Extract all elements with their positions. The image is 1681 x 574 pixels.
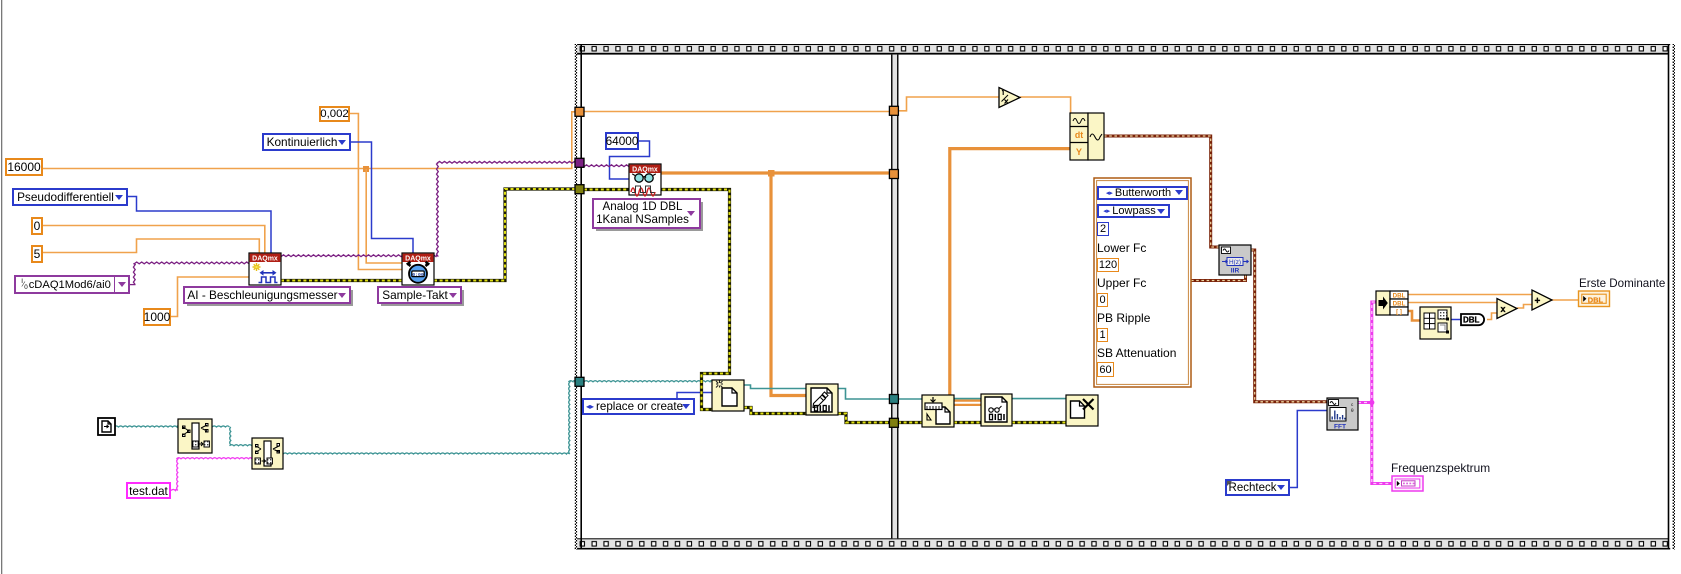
Open/Create/Replace File node — [712, 380, 744, 411]
Strip Path node — [178, 419, 212, 453]
wire: reciprocal output to build waveform dt — [1020, 97, 1071, 113]
constant 64000 — [605, 132, 639, 150]
Read Binary File node — [981, 394, 1012, 426]
wire: unbundle magnitude array to array max-min — [1408, 311, 1420, 321]
error wire: timing to structure tunnel — [434, 189, 576, 281]
constant 5 — [31, 245, 43, 263]
reciprocal 1/x node — [999, 88, 1020, 108]
constant SB Attenuation 60 — [1097, 362, 1114, 377]
tunnel: sample rate into frame 1 — [575, 107, 584, 116]
svg-text:θ: θ — [1351, 408, 1354, 413]
label Upper Fc — [1097, 276, 1146, 290]
wire: build path output to structure tunnel — [283, 381, 575, 454]
wire: DBL conversion to multiply input — [1487, 313, 1497, 320]
cDAQ1Mod6/ai0 IO constant — [14, 275, 130, 294]
Frequenzspektrum indicator — [1392, 476, 1423, 491]
svg-text:DBL: DBL — [1588, 296, 1604, 305]
label Lower Fc — [1097, 241, 1146, 255]
constant Pseudodifferentiell dropdown — [12, 188, 128, 206]
wire: strip path to build path — [212, 426, 252, 446]
error wire: open file to write file — [744, 408, 806, 414]
Close File node — [1066, 395, 1098, 426]
wire: task tunnel to DAQmx read — [584, 165, 629, 167]
wire: IIR filter output to FFT — [1251, 250, 1327, 402]
wire: sample rate branch to DAQmx timing rate input — [366, 169, 402, 263]
wire: replace-or-create mode to open file — [677, 393, 712, 400]
label Erste Dominante — [1579, 277, 1665, 290]
svg-text:DBL: DBL — [1393, 293, 1406, 300]
Current VI Path node — [98, 418, 115, 435]
wire: FFT spectrum output — [1358, 401, 1373, 404]
wire: add output to Erste Dominante indicator — [1552, 299, 1578, 301]
Sample-Takt dropdown — [377, 286, 462, 304]
tunnel: file path into frame 1 — [575, 377, 584, 386]
flat sequence left border checker — [575, 44, 582, 550]
error wire: get size to read file — [954, 421, 981, 424]
error wire: tunnel to get size — [898, 421, 922, 424]
replace or create dropdown — [582, 398, 695, 416]
label Frequenzspektrum — [1391, 461, 1490, 475]
svg-text:[ ]: [ ] — [1396, 309, 1402, 315]
wire: spectrum to Frequenzspektrum indicator — [1372, 401, 1392, 484]
label SB Attenuation — [1097, 346, 1176, 360]
wire: file refnum size to read — [954, 398, 981, 400]
svg-text:+: + — [1535, 296, 1541, 307]
Butterworth dropdown — [1097, 186, 1188, 200]
svg-text:H(z): H(z) — [1229, 259, 1241, 266]
IIR filter node — [1219, 245, 1251, 275]
Analog 1D DBL polymorphic selector — [592, 198, 701, 229]
constant 0 — [31, 217, 43, 235]
Kontinuierlich dropdown — [262, 133, 351, 151]
constant Upper Fc 0 — [1097, 293, 1108, 307]
wire: waveform build to IIR filter — [1104, 136, 1219, 247]
wire: max index to DBL conversion — [1451, 319, 1461, 321]
test.dat string constant — [126, 482, 171, 499]
junction on data array wire — [768, 170, 775, 177]
wire: task create channel to timing and tunnel — [281, 161, 576, 256]
wire: unbundle DBL to multiply — [1408, 302, 1497, 304]
svg-text:DBL: DBL — [1463, 316, 1480, 325]
Build Waveform node — [1070, 113, 1104, 160]
flat sequence right border checker — [1668, 44, 1675, 550]
FFT power spectrum node — [1327, 398, 1358, 430]
wire: filter spec cluster to IIR filter — [1191, 275, 1246, 281]
svg-text:DAQmx: DAQmx — [252, 256, 278, 263]
AI - Beschleunigungsmesser dropdown — [183, 286, 351, 304]
wire: Pseudodifferentiell to create channel — [128, 197, 271, 254]
DAQmx Create Channel node — [249, 253, 281, 285]
Array Max and Min node — [1420, 307, 1451, 339]
wire: 64000 to DAQmx read samples input — [610, 141, 650, 179]
svg-text:Y: Y — [1076, 147, 1082, 157]
wire: 16000 sample rate to tunnel — [43, 112, 576, 169]
wire: Rechteck window to FFT — [1289, 411, 1327, 488]
wire: path tunnel to open file — [584, 381, 712, 382]
wire: file size to read count lower — [954, 404, 981, 406]
svg-text:IIR: IIR — [1231, 268, 1240, 275]
junction on sample-rate wire — [363, 166, 369, 172]
filter specification cluster frame — [1094, 178, 1191, 387]
wire: constant 5 to create channel max input — [43, 239, 259, 253]
wire: data array branch to write binary file — [771, 173, 806, 396]
wire: sample rate to reciprocal — [898, 97, 999, 111]
wire: Kontinuierlich to timing mode — [351, 142, 413, 253]
wire: DAQmx read data array to tunnel — [661, 171, 889, 174]
DAQmx Read node — [629, 164, 661, 196]
Build Path node — [252, 438, 283, 469]
wire: spectrum to unbundle — [1372, 302, 1376, 404]
svg-text:dt: dt — [1075, 130, 1083, 140]
wire: constant 0 to create channel min input — [43, 226, 265, 254]
wire: multiply output to add input — [1517, 305, 1532, 309]
tunnel: sample rate frame divider — [889, 106, 898, 115]
constant 120 — [1097, 258, 1119, 272]
To DBL conversion node — [1461, 314, 1484, 325]
junction on spectrum wire — [1369, 400, 1374, 405]
constant 16000 — [5, 158, 43, 176]
svg-text:DAQmx: DAQmx — [632, 167, 658, 174]
wire: file data array up to build waveform Y — [950, 149, 1070, 402]
wire: test.dat to build path — [171, 458, 252, 491]
tunnel: error frame divider — [889, 418, 898, 427]
unbundle spectrum cluster node — [1376, 291, 1408, 315]
wire: physical channel to create channel — [130, 262, 249, 285]
error wire: create channel to timing — [281, 279, 402, 282]
DAQmx Timing node — [402, 253, 434, 285]
flat sequence bottom film-strip border — [575, 538, 1670, 549]
Write Binary File node — [806, 384, 838, 415]
error wire: read file to close file — [1012, 421, 1066, 424]
Rechteck window dropdown — [1225, 479, 1290, 496]
Lowpass dropdown — [1097, 204, 1170, 218]
wire: VI path to strip path — [114, 426, 178, 427]
flat sequence frame divider — [891, 55, 899, 539]
Erste Dominante DBL indicator — [1579, 291, 1610, 307]
flat sequence top film-strip border — [575, 44, 1670, 55]
wire: unbundle DBL df to add — [1408, 294, 1532, 296]
tunnel: data array frame divider — [889, 170, 898, 179]
constant order 2 — [1097, 222, 1109, 236]
tunnel: file refnum frame divider — [889, 395, 898, 404]
tunnel: error into frame 1 — [575, 185, 584, 194]
wire: file refnum read to close — [1012, 398, 1066, 400]
tunnel: DAQmx task into frame 1 — [575, 158, 584, 167]
Get File Size node — [922, 395, 954, 427]
window left edge line — [1, 0, 2, 574]
svg-text:DBL: DBL — [1393, 301, 1406, 308]
constant 0,002 — [319, 106, 350, 122]
svg-text:x: x — [1501, 304, 1506, 314]
wire: file refnum open to write — [744, 385, 806, 389]
svg-text:FFT: FFT — [1334, 423, 1346, 430]
constant 1000 — [143, 308, 171, 326]
error wire: write file to tunnel — [838, 414, 889, 423]
svg-text:0:00: 0:00 — [412, 272, 424, 278]
wire: sample rate across frame 1 — [584, 111, 889, 113]
constant PB Ripple 1 — [1097, 328, 1108, 342]
wire: file refnum write to tunnel — [838, 389, 889, 400]
multiply node — [1497, 299, 1517, 319]
label PB Ripple — [1097, 311, 1150, 325]
wire: file refnum tunnel to get size — [898, 398, 922, 400]
add node — [1532, 290, 1552, 310]
wire: constant 0,002 to timing input — [350, 114, 402, 270]
error wire: tunnel under DAQmx read to open file — [584, 190, 730, 410]
wire: constant 1000 to create channel input — [171, 277, 249, 317]
wire: file size to read count upper — [954, 400, 981, 402]
